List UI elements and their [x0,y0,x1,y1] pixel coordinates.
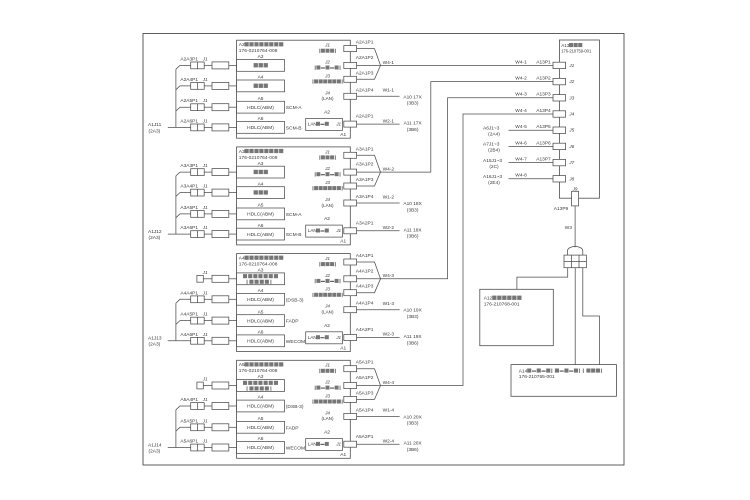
wire W4-7 from A15J1~3 [509,162,554,164]
svg-text:A13P4: A13P4 [536,108,551,114]
wire A3A1P3 to merge [357,172,381,186]
svg-text:J4: J4 [324,197,330,202]
wire A2A1P2 to merge [357,64,381,66]
label A3A2P1 [356,220,374,226]
wire cable to unit [229,426,237,428]
connector A4A1P3 jack J3 [344,290,357,296]
svg-text:J1: J1 [324,43,330,48]
svg-text:W1-2: W1-2 [383,194,395,200]
label J1 [202,225,208,230]
label A3A3P1 [180,163,198,169]
svg-text:A3A3P1: A3A3P1 [180,163,198,169]
svg-text:A15J1~3: A15J1~3 [483,158,502,164]
connector A13P2 jack J2 [553,78,566,84]
wire A4A1P3 to merge [357,279,381,293]
cable connector [212,62,229,69]
svg-text:J1: J1 [202,270,208,275]
svg-text:HDLC(ABM): HDLC(ABM) [247,425,274,431]
svg-text:A3A1P4: A3A1P4 [356,194,374,200]
svg-text:A13P1: A13P1 [536,59,551,65]
svg-text:J1: J1 [568,63,574,68]
label W1-1 [383,88,395,94]
svg-text:(3B3): (3B3) [407,101,419,107]
svg-text:A13P2: A13P2 [536,76,551,82]
connector A3A1P2 jack J2 [344,169,357,175]
connector A2A2P1 jack J1 [344,121,357,127]
svg-text:A2: A2 [324,430,330,436]
wire W4-4 run [381,114,554,386]
connector pair A3A5P1/J1 [191,211,205,218]
label A3A5P1 [180,205,198,211]
svg-text:(3B6): (3B6) [407,234,419,240]
svg-text:J1: J1 [335,335,341,340]
svg-text:W4-6: W4-6 [515,140,527,146]
wire pair to cable [204,126,212,128]
board A3 box 拡張用 [237,60,285,72]
label （マウス） [319,155,336,159]
svg-text:A2A6P1: A2A6P1 [180,118,198,124]
svg-text:W2-3: W2-3 [383,332,395,338]
label A13切換器 [561,43,582,48]
svg-text:A13: A13 [561,43,570,48]
svg-text:J3: J3 [324,180,330,185]
board A4 box 拡張用 [237,187,285,199]
connector pair A3A4P1/J1 [191,189,205,196]
connector A13P6 jack J6 [553,143,566,149]
svg-text:J1: J1 [202,184,208,189]
svg-text:W4-3: W4-3 [383,273,395,279]
svg-text:A13P7: A13P7 [536,157,551,163]
svg-text:(2A3): (2A3) [149,448,161,454]
label board ref A5 [258,309,264,315]
wire pair to cable [204,426,212,428]
label A1J12 (2A3) [148,229,162,241]
connector A3A2P1 jack J1 [344,228,357,234]
svg-text:J3: J3 [324,393,330,398]
label A11 20X (3B6) [404,441,423,453]
svg-text:A7J1~3: A7J1~3 [483,142,500,148]
connector A5A1P4 jack J4 [344,413,357,419]
wire pair to cable [204,233,212,235]
label （ディスプレイ） [312,186,342,190]
svg-text:A4A5P1: A4A5P1 [180,312,198,318]
board A2 box LANボード [306,439,343,451]
connector A13P9 jack J9 [572,191,579,206]
svg-text:J3: J3 [324,73,330,78]
wire input bus A1J13 [168,299,191,341]
svg-text:J2: J2 [324,166,330,171]
label W4-1 [515,59,527,65]
label (LAN) [322,96,334,101]
connector A13P1 jack J1 [553,62,566,68]
svg-text:(3B6): (3B6) [407,447,419,453]
svg-text:A3A1P2: A3A1P2 [356,162,374,168]
svg-text:A10 18X: A10 18X [403,201,422,207]
svg-text:A2A3P1: A2A3P1 [180,56,198,62]
svg-text:W4-2: W4-2 [383,167,395,173]
connector pair A3A3P1/J1 [191,169,205,176]
wire jack to cable [203,385,212,387]
svg-text:A5A1P2: A5A1P2 [356,375,374,381]
label (DSB-3) [286,404,304,410]
wire W2-4 [357,443,400,445]
cable connector [212,296,229,303]
svg-text:J1: J1 [202,56,208,61]
label A15J1~3 (2C) [483,158,502,170]
svg-text:J4: J4 [568,112,574,117]
label port J1 [324,363,330,368]
wire jack to cable [203,278,212,280]
label A2A1P4 [356,87,374,93]
label 176-210768-001 [484,302,520,308]
svg-text:A5A2P1: A5A2P1 [356,434,374,440]
connector A13P3 jack J3 [553,95,566,101]
connector A5A2P1 jack J1 [344,441,357,447]
cable connector [212,104,229,111]
wire W1-4 [357,415,400,417]
label A3A1P4 [356,194,374,200]
svg-text:A10 17X: A10 17X [403,94,422,100]
svg-text:J1: J1 [202,418,208,423]
svg-text:(3B6): (3B6) [407,340,419,346]
svg-text:J4: J4 [324,410,330,415]
label （マウス） [319,262,336,266]
label (DSB-3) [286,297,304,303]
svg-text:A13P3: A13P3 [536,92,551,98]
connector A4A2P1 jack J1 [344,335,357,341]
label port J4 [324,410,330,415]
svg-text:W4-1: W4-1 [383,60,395,66]
board A6 box HDLC(ABM) [237,228,285,240]
unit A1 box (A2変換処理ユニット) [237,40,351,138]
wire cable to unit [229,405,237,407]
label J7 [568,160,574,165]
label J1 [202,312,208,317]
connector pair A5A4P1/J1 [191,403,205,410]
label 176-0210764-008 [239,262,278,268]
svg-text:LAN: LAN [308,335,317,340]
label board ref A2 [324,323,330,329]
connector pair A4A5P1/J1 [191,317,205,324]
label A1J11 (2A3) [148,122,162,134]
label W4-8 [515,173,527,179]
connector A13P4 jack J4 [553,111,566,117]
label A16J1~3 (2E4) [483,174,502,186]
svg-text:A5A4P1: A5A4P1 [180,397,198,403]
label （ディスプレイ） [312,293,342,297]
svg-text:A1: A1 [340,452,346,458]
wire cable to unit [229,340,237,342]
wire W4-5 from A6J1~3 [509,129,554,131]
board A5 box HDLC(ABM) [237,315,285,327]
label unit ref A1 [340,452,346,458]
svg-text:J6: J6 [568,144,574,149]
board A5 box HDLC(ABM) [237,208,285,220]
label port J1 [324,256,330,261]
connector A13P8 jack J8 [553,176,566,182]
cable breakout brace [568,246,583,255]
svg-text:A2: A2 [324,109,330,115]
label port J2 [324,380,330,385]
label W2-3 [383,332,395,338]
svg-text:J3: J3 [568,95,574,100]
label unit ref A1 [340,345,346,351]
label board ref A4 [258,395,264,401]
label A14キーボード（キーボード）（マウス） [519,368,602,374]
svg-text:W4-2: W4-2 [515,76,527,82]
svg-text:J1: J1 [202,397,208,402]
label A2変換処理ユニット [239,42,284,48]
cable connector [212,382,229,389]
label （ディスプレイ） [312,79,342,83]
wire W4-2 run [381,82,554,173]
unit A12 box (A12ディスプレイ) [480,289,554,345]
svg-text:J1: J1 [324,149,330,154]
label A3A1P1 [356,146,374,152]
wire W4-6 from A7J1~3 [509,145,554,147]
connector jack J1 [197,275,203,282]
connector A2A1P2 jack J2 [344,62,357,68]
svg-text:176-0210764-008: 176-0210764-008 [239,368,278,374]
label （マウス） [319,49,336,53]
cable connector [212,337,229,344]
svg-text:A4A2P1: A4A2P1 [356,327,374,333]
label (LAN) [322,203,334,208]
svg-text:A1J14: A1J14 [148,442,162,448]
svg-text:W4-1: W4-1 [515,59,527,65]
wire pair to cable [204,213,212,215]
svg-text:J1: J1 [202,163,208,168]
svg-text:J4: J4 [324,90,330,95]
svg-text:J1: J1 [202,312,208,317]
wire pair to cable [204,106,212,108]
connector A4A1P1 jack J1 [344,259,357,265]
label port J4 [324,304,330,309]
svg-text:J7: J7 [568,160,574,165]
svg-text:(2A3): (2A3) [149,128,161,134]
label board ref A6 [258,330,264,336]
svg-text:A4A1P4: A4A1P4 [356,301,374,307]
label J1 [202,270,208,275]
label A13P9 [554,206,569,212]
cable connector [212,424,229,431]
label board ref A5 [258,96,264,102]
connector W3 breakout block [564,255,586,268]
cable connector [212,124,229,131]
svg-text:J3: J3 [324,287,330,292]
label board ref A3 [258,268,264,274]
connector pair A2A6P1/J1 [191,124,205,131]
svg-text:(3B3): (3B3) [407,314,419,320]
label SCM-B [286,125,302,131]
connector pair A2A3P1/J1 [191,62,205,69]
svg-text:HDLC(ABM): HDLC(ABM) [247,445,274,451]
label J1 [568,63,574,68]
svg-text:A3A4P1: A3A4P1 [180,184,198,190]
label A13P6 [536,140,551,146]
svg-text:SCM-A: SCM-A [286,105,302,111]
label （マウス） [319,369,336,373]
label A2A5P1 [180,98,198,104]
label (LAN) [322,416,334,421]
wire W4-1 run [381,64,554,66]
wire cable to unit [229,385,237,387]
label A2A1P1 [356,40,374,46]
label W2-1 [383,118,395,124]
wire W2-2 [357,230,400,232]
board A3 box 無手順レベル0（調歩回線） [237,273,285,285]
label W4-3 [515,92,527,98]
label A4A4P1 [180,290,198,296]
svg-text:J2: J2 [324,59,330,64]
svg-text:W1-3: W1-3 [383,301,395,307]
wire pair to cable [204,298,212,300]
wire input bus A1J14 [168,406,191,448]
svg-text:A4A6P1: A4A6P1 [180,332,198,338]
wire A4A1P2 to merge [357,278,381,280]
label board ref A2 [324,216,330,222]
label A2A4P1 [180,77,198,83]
svg-text:A1: A1 [340,239,346,245]
label J1 [202,118,208,123]
connector pair A5A6P1/J1 [191,444,205,451]
svg-text:176-210759-001: 176-210759-001 [561,48,592,53]
label A3A1P3 [356,177,374,183]
wire bus branch [176,321,191,325]
svg-text:A10 19X: A10 19X [403,308,422,314]
board A2 box LANボード [306,225,343,237]
label A4A1P3 [356,284,374,290]
svg-text:(2E4): (2E4) [488,180,500,186]
label 176-210759-001 [561,48,592,53]
label A5A2P1 [356,434,374,440]
board A5 box HDLC(ABM) [237,421,285,433]
svg-text:(2A4): (2A4) [488,131,500,137]
unit A14 box (A14キーボード) [511,365,616,397]
svg-text:A3A1P1: A3A1P1 [356,146,374,152]
label port J3 [324,287,330,292]
wire pair to cable [204,405,212,407]
svg-text:(DSB-3): (DSB-3) [286,297,304,303]
label J1 [202,205,208,210]
wire pair to cable [204,192,212,194]
svg-text:(3B6): (3B6) [407,127,419,133]
board A6 box HDLC(ABM) [237,442,285,454]
label W4-5 [515,124,527,130]
label A10 18X (3B3) [403,201,422,213]
label J1 [202,397,208,402]
connector A3A1P3 jack J3 [344,183,357,189]
svg-text:A2A1P1: A2A1P1 [356,40,374,46]
connector pair A2A4P1/J1 [191,83,205,90]
svg-text:A12: A12 [484,296,493,302]
svg-text:A3: A3 [239,149,245,155]
label board ref A5 [258,203,264,209]
svg-text:A2A1P2: A2A1P2 [356,55,374,61]
label FADP [286,319,299,325]
label J1 [202,77,208,82]
svg-text:A4A1P1: A4A1P1 [356,253,374,259]
svg-text:J1: J1 [202,98,208,103]
svg-text:(3B3): (3B3) [407,207,419,213]
label A4A1P1 [356,253,374,259]
unit A13 box (A13切換器) [559,40,599,198]
label 176-210765-001 [519,374,555,380]
label J1 [202,163,208,168]
label A4A5P1 [180,312,198,318]
svg-text:SCM-B: SCM-B [286,232,302,238]
label A1J13 (2A3) [148,336,162,348]
label A1J14 (2A3) [148,442,162,454]
svg-text:A5A1P1: A5A1P1 [356,360,374,366]
wire cable to unit [229,298,237,300]
svg-text:A11 17X: A11 17X [404,121,423,127]
label （ディスプレイ） [312,400,342,404]
svg-text:(LAN): (LAN) [322,203,334,208]
svg-text:HDLC(ABM): HDLC(ABM) [247,339,274,345]
svg-text:176-0210764-008: 176-0210764-008 [239,262,278,268]
label board ref A3 [258,374,264,380]
wire bus branch [176,427,191,431]
label A13P5 [536,124,551,130]
svg-text:(2B4): (2B4) [488,148,500,154]
label A11 18X (3B6) [404,227,423,239]
label port J4 [324,90,330,95]
board A2 box LANボード [306,332,343,344]
svg-text:A4: A4 [239,256,245,262]
label FADP [286,425,299,431]
wire cable to unit [229,278,237,280]
svg-text:J1: J1 [335,442,341,447]
svg-text:J1: J1 [324,363,330,368]
label A13P1 [536,59,551,65]
label J1 [202,439,208,444]
label J9 [572,187,578,192]
label A7J1~3 (2B4) [483,142,500,154]
label W2-2 [383,225,395,231]
label W1-4 [383,408,395,414]
wire A2A1P3 to merge [357,65,381,79]
label (LAN) [322,310,334,315]
label A2A3P1 [180,56,198,62]
svg-text:(DSB-3): (DSB-3) [286,404,304,410]
svg-text:SCM-B: SCM-B [286,125,302,131]
svg-text:W4-4: W4-4 [515,108,527,114]
svg-text:HDLC(ABM): HDLC(ABM) [247,105,274,111]
wire pair to cable [204,64,212,66]
svg-text:A13P6: A13P6 [536,140,551,146]
label J1 [202,56,208,61]
label port J4 [324,197,330,202]
label A5A5P1 [180,418,198,424]
wire W3 [574,206,576,247]
connector pair A5A5P1/J1 [191,424,205,431]
wire breakout to A14 (keyboard) [574,268,576,365]
wire input bus A1J11 [168,65,191,127]
svg-text:A2: A2 [239,42,245,48]
svg-text:176-210768-001: 176-210768-001 [484,302,520,308]
label port J1 [324,149,330,154]
label unit ref A1 [340,239,346,245]
board A5 box HDLC(ABM) [237,101,285,113]
board A2 box LANボード [306,118,343,130]
label A11 17X (3B6) [404,121,423,133]
label J1 [202,184,208,189]
label W1-3 [383,301,395,307]
svg-text:J2: J2 [568,79,574,84]
label port J3 [324,73,330,78]
label A6J1~3 (2A4) [483,126,500,138]
